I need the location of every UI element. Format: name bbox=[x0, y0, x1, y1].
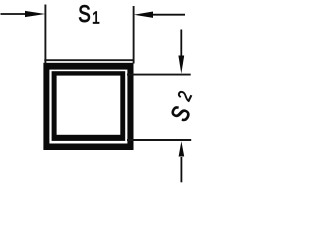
svg-text:S: S bbox=[78, 1, 90, 28]
svg-text:1: 1 bbox=[92, 8, 100, 28]
